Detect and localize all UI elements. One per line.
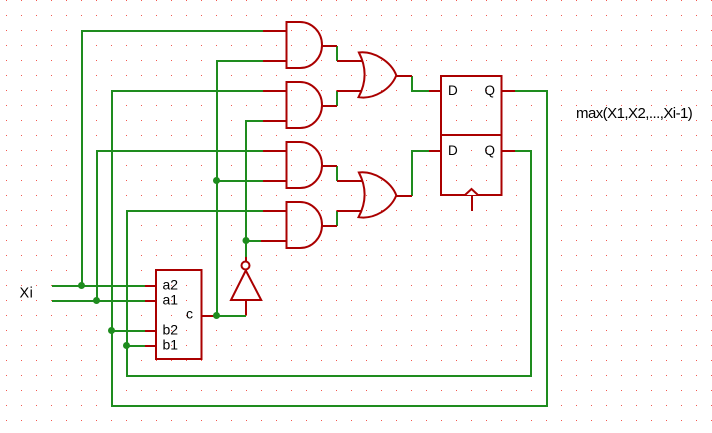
- svg-text:D: D: [448, 83, 458, 98]
- wire a2 to AND1 top input via x=81: [82, 31, 263, 286]
- wire a1 to AND3 top input via x=96: [97, 151, 263, 301]
- AND gate A4 body: [287, 202, 323, 248]
- wire b1 to AND4 top input via x=126: [127, 211, 263, 346]
- AND gate A3 body: [287, 142, 323, 188]
- OR gate O1 body: [359, 52, 397, 97]
- inverter N1 triangle: [231, 271, 261, 301]
- wire not-c to AND4 lower input: [246, 240, 263, 242]
- svg-text:Q: Q: [485, 143, 496, 158]
- wire AND3 out to OR2 in1: [336, 166, 338, 181]
- svg-text:b2: b2: [163, 322, 179, 338]
- inverter output pin stub: [245, 257, 247, 262]
- inverter input pin: [245, 301, 247, 315]
- comparator input pin b1: [145, 345, 157, 347]
- OR1 output pin: [397, 75, 413, 77]
- FF2 Q output pin: [502, 150, 515, 152]
- register clock pin: [471, 196, 473, 211]
- svg-text:Q: Q: [485, 83, 496, 98]
- wire b2 to AND2 top input via x=111: [112, 91, 263, 331]
- svg-text:c: c: [186, 306, 193, 322]
- OR gate O2 body: [359, 172, 397, 217]
- wire node c to AND3 lower input: [217, 180, 263, 182]
- FF1 D input pin: [429, 90, 442, 92]
- AND3 input pin a: [263, 150, 287, 152]
- OR1 input pin b: [337, 90, 362, 92]
- wire comparator c output to inverter input: [217, 315, 246, 317]
- comparator output pin c: [202, 315, 218, 317]
- svg-text:a1: a1: [163, 292, 179, 308]
- AND gate A2 body: [287, 82, 323, 128]
- wire FF2 Q feedback loop via x=531 and y=375: [127, 151, 531, 376]
- D flip-flop register block: [441, 76, 502, 195]
- FF2 D input pin: [429, 150, 442, 152]
- AND4 input pin b: [261, 240, 287, 242]
- AND2 output pin: [323, 105, 338, 107]
- OR1 input pin a: [337, 60, 362, 62]
- wire OR2 out to FF2 D input: [412, 151, 429, 196]
- junction node on a2 line x=81: [78, 282, 85, 289]
- register divider line: [441, 134, 502, 136]
- AND gate A1 body: [287, 22, 323, 68]
- junction node on b1 line x=126: [123, 342, 130, 349]
- OR2 input pin a: [337, 180, 362, 182]
- junction node on a1 line x=96: [93, 297, 100, 304]
- inverter N1 bubble: [242, 262, 250, 270]
- AND2 input pin b: [263, 120, 287, 122]
- OR2 input pin b: [337, 210, 362, 212]
- wire AND4 out to OR2 in2: [336, 211, 338, 226]
- junction node c output: [213, 312, 220, 319]
- svg-text:max(X1,X2,...,Xi-1): max(X1,X2,...,Xi-1): [576, 105, 693, 122]
- wire inverter output vertical x=245 to AND2 lower input: [246, 121, 263, 257]
- wire FF1 Q feedback loop via x=546 and y=405: [112, 91, 547, 406]
- comparator input pin b2: [145, 330, 157, 332]
- AND2 input pin a: [263, 90, 287, 92]
- comparator input pin a1: [145, 300, 157, 302]
- wire AND2 out to OR1 in2: [336, 91, 338, 106]
- junction node not-c: [243, 237, 250, 244]
- wire Xi a1 horizontal y=300: [52, 300, 145, 302]
- wire AND1 out to OR1 in1: [336, 46, 338, 61]
- comparator input pin a2: [145, 285, 157, 287]
- AND3 input pin b: [263, 180, 287, 182]
- AND1 input pin b: [263, 60, 287, 62]
- wire b2 horizontal y=330: [112, 330, 145, 332]
- svg-text:a2: a2: [163, 277, 179, 293]
- OR2 output pin: [397, 195, 413, 197]
- wire b1 horizontal y=345: [127, 345, 145, 347]
- AND4 input pin a: [263, 210, 287, 212]
- wire OR1 out to FF1 D input: [412, 76, 429, 91]
- wire node c vertical to AND1 lower input: [217, 61, 263, 316]
- junction node on b2 line x=111: [108, 327, 115, 334]
- comparator U1 box: [156, 270, 202, 359]
- svg-text:Xi: Xi: [20, 286, 34, 302]
- AND1 output pin: [323, 45, 338, 47]
- AND4 output pin: [323, 225, 338, 227]
- wire Xi a2 horizontal y=285: [52, 285, 145, 287]
- svg-text:b1: b1: [163, 337, 179, 353]
- junction node c to AND3: [213, 177, 220, 184]
- AND1 input pin a: [263, 30, 287, 32]
- svg-text:D: D: [448, 143, 458, 158]
- FF1 Q output pin: [502, 90, 515, 92]
- register clock triangle: [465, 189, 478, 195]
- AND3 output pin: [323, 165, 338, 167]
